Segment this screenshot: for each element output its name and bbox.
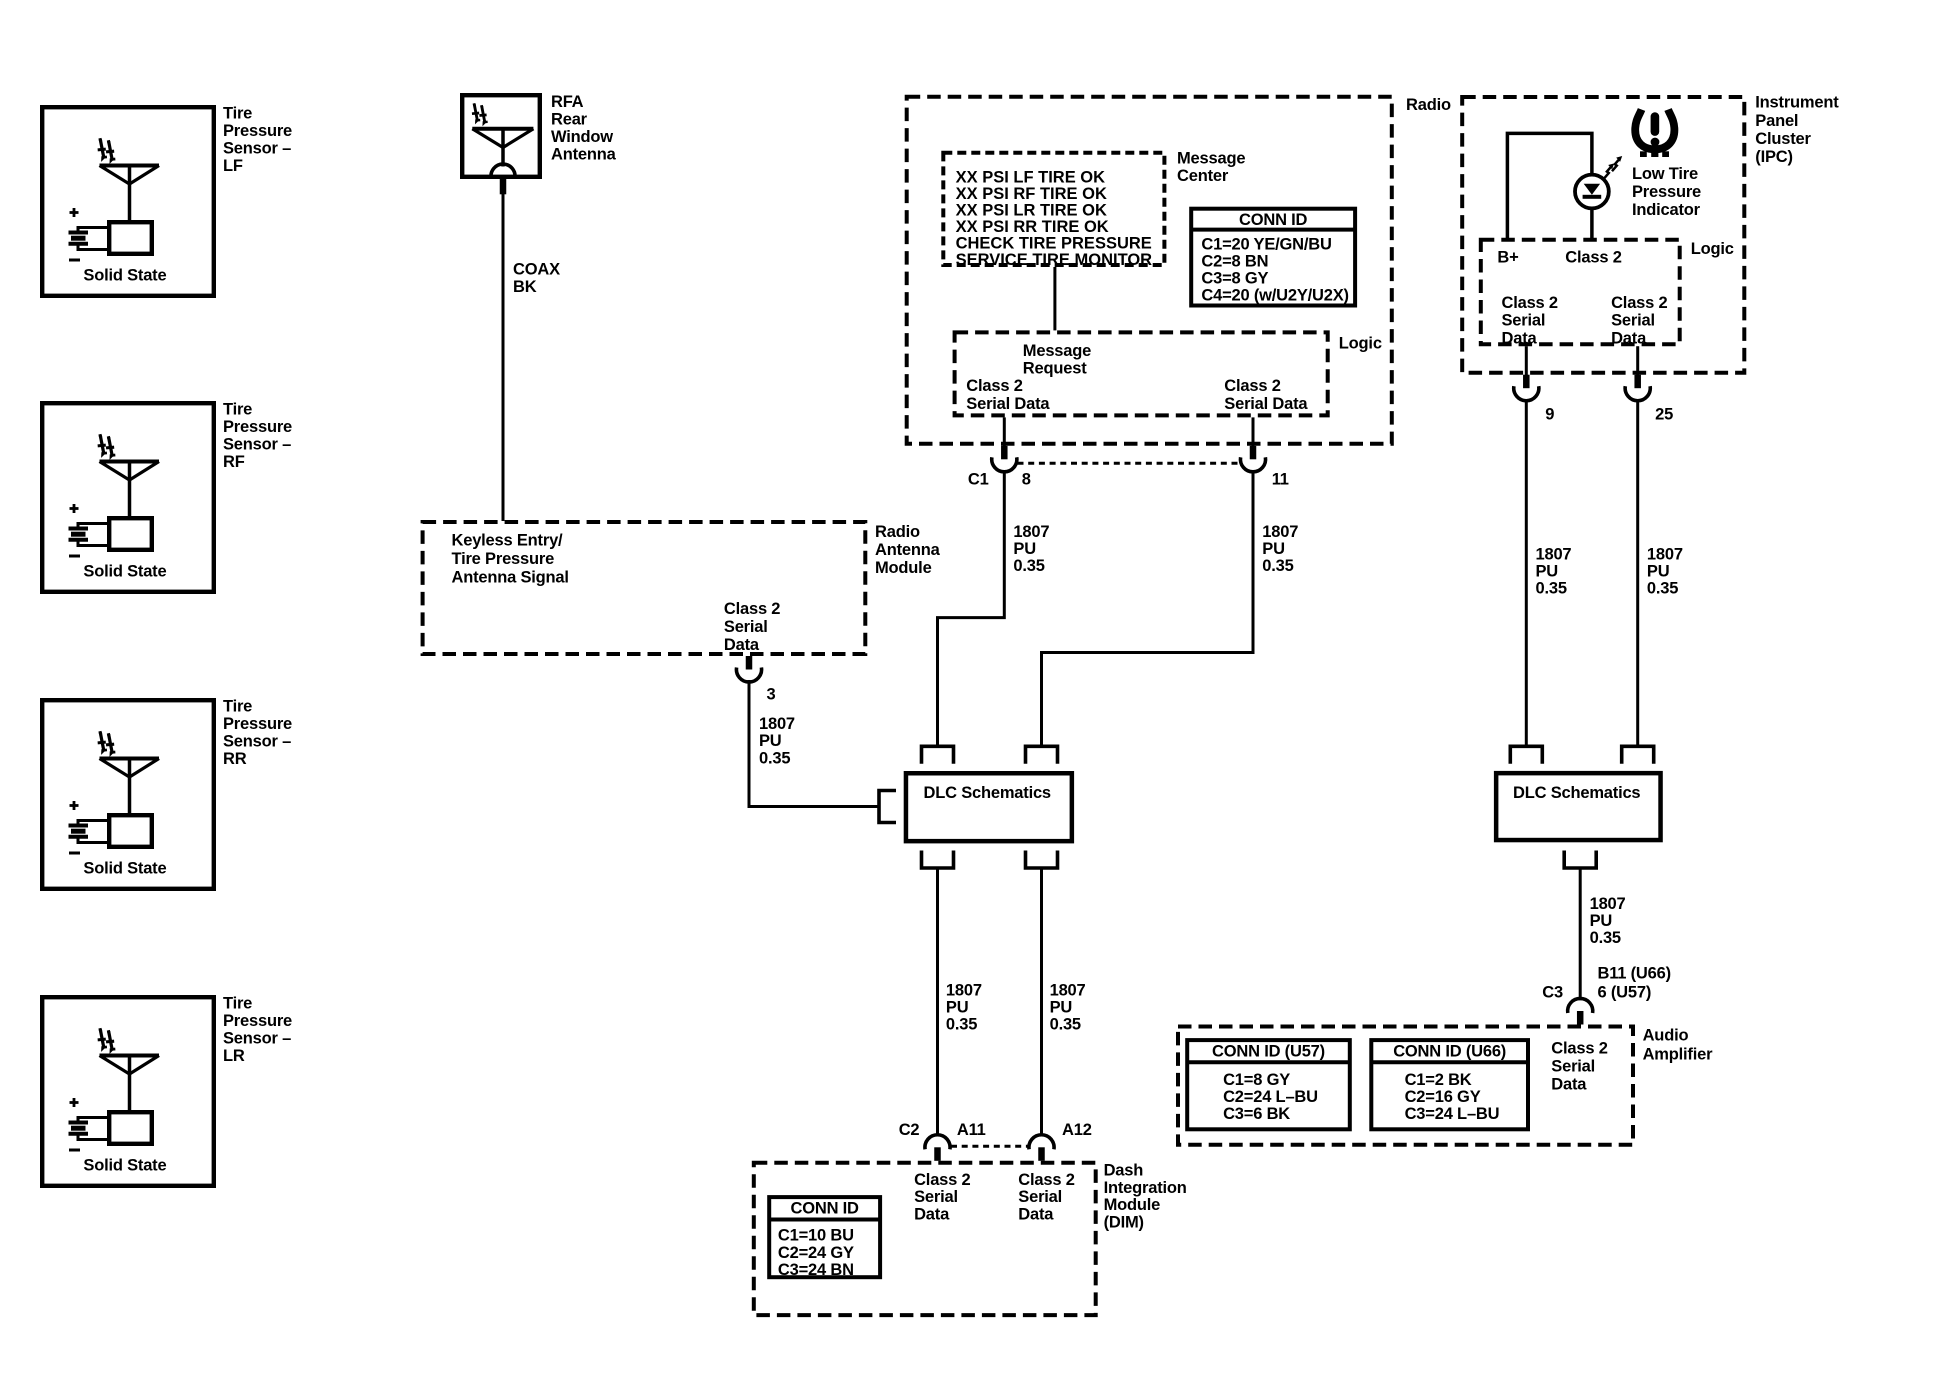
svg-text:CONN ID (U57): CONN ID (U57) — [1212, 1043, 1325, 1061]
svg-text:Radio: Radio — [875, 523, 920, 541]
display message center — [943, 150, 1245, 269]
svg-text:Integration: Integration — [1104, 1179, 1187, 1197]
svg-text:(IPC): (IPC) — [1755, 148, 1793, 166]
svg-text:(DIM): (DIM) — [1104, 1213, 1144, 1231]
svg-text:PU: PU — [946, 998, 969, 1016]
svg-text:RFA: RFA — [551, 93, 584, 111]
svg-text:C3=24 L–BU: C3=24 L–BU — [1405, 1105, 1500, 1123]
svg-text:0.35: 0.35 — [1536, 580, 1567, 598]
pin top-right of DLC — [1026, 746, 1058, 764]
svg-text:CONN ID (U66): CONN ID (U66) — [1393, 1043, 1506, 1061]
svg-text:DLC Schematics: DLC Schematics — [924, 784, 1051, 802]
connector C2 junction line — [951, 1145, 1030, 1148]
svg-text:Serial: Serial — [1551, 1058, 1595, 1076]
svg-text:Tire: Tire — [223, 995, 252, 1013]
pin left of DLC — [879, 791, 896, 823]
connector C3 — [1542, 984, 1592, 1025]
wire 1807 PU 0.35 (DLC to audio amplifier) — [1580, 870, 1625, 1001]
svg-text:Class 2: Class 2 — [1502, 294, 1558, 312]
module DLC schematics (left) — [906, 773, 1072, 841]
svg-text:Pressure: Pressure — [223, 715, 292, 733]
label dash integration module — [1104, 1162, 1187, 1232]
svg-text:1807: 1807 — [1262, 523, 1298, 541]
icon low tire pressure warning — [1635, 110, 1674, 158]
svg-text:Pressure: Pressure — [223, 418, 292, 436]
svg-text:Class 2: Class 2 — [1224, 377, 1280, 395]
svg-text:6 (U57): 6 (U57) — [1598, 984, 1652, 1002]
svg-text:1807: 1807 — [1050, 981, 1086, 999]
label low tire pressure indicator — [1632, 165, 1701, 219]
table CONN ID (DIM) — [769, 1197, 880, 1279]
svg-text:Message: Message — [1177, 150, 1245, 168]
svg-text:Tire: Tire — [223, 105, 252, 123]
svg-text:1807: 1807 — [1013, 523, 1049, 541]
svg-text:C1=2 BK: C1=2 BK — [1405, 1071, 1472, 1089]
connector pin 25 — [1625, 375, 1673, 424]
module dash integration module — [754, 1163, 1096, 1315]
svg-text:Sensor –: Sensor – — [223, 436, 291, 454]
connector C1 pin 8 — [968, 446, 1031, 489]
svg-text:Pressure: Pressure — [223, 1012, 292, 1030]
svg-text:Serial: Serial — [1611, 312, 1655, 330]
wire LED to logic — [1590, 208, 1594, 241]
pin top-left of DLC — [922, 746, 954, 764]
svg-text:C2=24 GY: C2=24 GY — [778, 1244, 854, 1262]
svg-text:SERVICE TIRE MONITOR: SERVICE TIRE MONITOR — [956, 251, 1153, 269]
svg-text:PU: PU — [1590, 912, 1613, 930]
svg-text:Logic: Logic — [1691, 240, 1734, 258]
svg-text:C2=24 L–BU: C2=24 L–BU — [1223, 1088, 1318, 1106]
svg-text:BK: BK — [513, 278, 537, 296]
tire pressure sensor RR — [42, 698, 292, 889]
module keyless entry / tire pressure antenna signal — [423, 522, 866, 654]
pin bottom-left of DLC — [922, 851, 954, 869]
module instrument panel cluster — [1462, 94, 1839, 373]
svg-text:A11: A11 — [957, 1121, 986, 1139]
svg-text:DLC Schematics: DLC Schematics — [1513, 784, 1640, 802]
wire 1807 PU 0.35 (radio 11 to DLC) — [1042, 470, 1299, 745]
svg-text:Cluster: Cluster — [1755, 130, 1811, 148]
svg-text:Antenna: Antenna — [875, 541, 941, 559]
svg-text:Serial Data: Serial Data — [966, 395, 1050, 413]
svg-text:CONN ID: CONN ID — [1239, 211, 1308, 229]
pin bottom-right of DLC — [1026, 851, 1058, 869]
svg-text:3: 3 — [767, 686, 776, 704]
svg-text:Pressure: Pressure — [1632, 183, 1701, 201]
svg-text:1807: 1807 — [1647, 546, 1683, 564]
svg-text:C2=8 BN: C2=8 BN — [1201, 253, 1268, 271]
pin bottom of right DLC — [1564, 851, 1596, 869]
svg-text:1807: 1807 — [946, 981, 982, 999]
wire logic to radio edge (pin 8) — [1003, 417, 1006, 446]
svg-text:1807: 1807 — [1590, 895, 1626, 913]
svg-text:C4=20 (w/U2Y/U2X): C4=20 (w/U2Y/U2X) — [1201, 287, 1348, 305]
svg-text:1807: 1807 — [1536, 546, 1572, 564]
wire 1807 PU 0.35 (IPC 25 to DLC) — [1638, 399, 1683, 745]
wire 1807 PU 0.35 (DLC to DIM A12) — [1042, 870, 1086, 1137]
wire 1807 PU 0.35 (radio 8 to DLC) — [938, 470, 1050, 745]
svg-text:Serial: Serial — [724, 618, 768, 636]
connector pin 11 — [1240, 446, 1288, 489]
svg-text:25: 25 — [1655, 406, 1673, 424]
svg-text:Antenna: Antenna — [551, 146, 617, 164]
svg-text:Audio: Audio — [1643, 1027, 1689, 1045]
svg-text:Class 2: Class 2 — [724, 600, 780, 618]
wire 1807 PU 0.35 (DLC to DIM A11) — [938, 870, 982, 1137]
svg-text:PU: PU — [1647, 563, 1670, 581]
svg-text:Sensor –: Sensor – — [223, 733, 291, 751]
svg-text:Class 2: Class 2 — [1565, 249, 1621, 267]
svg-text:Logic: Logic — [1339, 335, 1382, 353]
wire 1807 PU 0.35 (IPC 9 to DLC) — [1526, 399, 1571, 745]
svg-text:0.35: 0.35 — [1590, 929, 1621, 947]
svg-text:Tire Pressure: Tire Pressure — [452, 550, 555, 568]
connector C1 junction line — [1018, 462, 1241, 465]
svg-text:RR: RR — [223, 750, 247, 768]
svg-text:Keyless Entry/: Keyless Entry/ — [452, 532, 564, 550]
svg-text:Serial Data: Serial Data — [1224, 395, 1308, 413]
svg-text:PU: PU — [1050, 998, 1073, 1016]
svg-text:Amplifier: Amplifier — [1643, 1046, 1713, 1064]
svg-text:9: 9 — [1545, 406, 1554, 424]
wire logic to IPC edge (pin 25) — [1636, 346, 1639, 375]
pin top-left of right DLC — [1510, 746, 1542, 764]
module radio — [907, 96, 1451, 444]
svg-text:RF: RF — [223, 453, 245, 471]
tire pressure sensor RF — [42, 401, 292, 592]
svg-text:C3: C3 — [1542, 984, 1563, 1002]
svg-text:Message: Message — [1023, 342, 1091, 360]
svg-text:Instrument: Instrument — [1755, 94, 1839, 112]
svg-text:LF: LF — [223, 157, 243, 175]
pin labels B11 / 6 — [1598, 965, 1671, 1002]
table CONN ID (radio) — [1191, 209, 1355, 306]
svg-text:Request: Request — [1023, 360, 1087, 378]
svg-text:Data: Data — [1502, 329, 1538, 347]
svg-text:Radio: Radio — [1406, 96, 1451, 114]
svg-text:C1: C1 — [968, 471, 989, 489]
svg-text:0.35: 0.35 — [1050, 1015, 1081, 1033]
svg-text:8: 8 — [1022, 471, 1031, 489]
svg-text:C2: C2 — [899, 1121, 920, 1139]
svg-text:Tire: Tire — [223, 401, 252, 419]
svg-text:A12: A12 — [1062, 1121, 1092, 1139]
svg-text:Sensor –: Sensor – — [223, 140, 291, 158]
svg-text:Class 2: Class 2 — [1611, 294, 1667, 312]
table CONN ID (U57) — [1187, 1040, 1350, 1129]
svg-text:LR: LR — [223, 1047, 245, 1065]
svg-text:Window: Window — [551, 128, 613, 146]
svg-text:Antenna Signal: Antenna Signal — [452, 568, 569, 586]
svg-text:Data: Data — [1018, 1206, 1054, 1224]
wire logic to radio edge (pin 11) — [1252, 417, 1255, 446]
svg-text:C3=6 BK: C3=6 BK — [1223, 1105, 1290, 1123]
logic block (radio) — [955, 332, 1382, 415]
label radio antenna module — [875, 523, 941, 577]
svg-text:Serial: Serial — [914, 1188, 958, 1206]
svg-text:C1=20 YE/GN/BU: C1=20 YE/GN/BU — [1201, 236, 1331, 254]
svg-text:C3=8 GY: C3=8 GY — [1201, 270, 1268, 288]
logic block (IPC) — [1481, 240, 1734, 348]
tire pressure sensor LF — [42, 105, 292, 296]
wire B+ feed — [1507, 133, 1592, 240]
svg-text:Sensor –: Sensor – — [223, 1030, 291, 1048]
svg-text:XX PSI LR TIRE OK: XX PSI LR TIRE OK — [956, 201, 1107, 219]
table CONN ID (U66) — [1371, 1040, 1528, 1129]
svg-text:1807: 1807 — [759, 715, 795, 733]
LED low tire pressure indicator — [1575, 156, 1622, 208]
connector C2 pin A11 — [899, 1121, 986, 1161]
svg-text:Data: Data — [1551, 1076, 1587, 1094]
antenna RFA rear window — [462, 93, 616, 194]
svg-text:Panel: Panel — [1755, 112, 1798, 130]
svg-text:Dash: Dash — [1104, 1162, 1144, 1180]
svg-text:Data: Data — [724, 636, 760, 654]
svg-text:XX PSI RR TIRE OK: XX PSI RR TIRE OK — [956, 218, 1109, 236]
svg-text:Module: Module — [1104, 1196, 1161, 1214]
svg-text:CONN ID: CONN ID — [791, 1200, 860, 1218]
svg-text:Serial: Serial — [1502, 312, 1546, 330]
wire COAX BK — [503, 193, 560, 521]
svg-text:0.35: 0.35 — [946, 1015, 977, 1033]
svg-text:XX PSI RF TIRE OK: XX PSI RF TIRE OK — [956, 185, 1107, 203]
svg-text:C1=8 GY: C1=8 GY — [1223, 1071, 1290, 1089]
svg-text:C3=24 BN: C3=24 BN — [778, 1261, 854, 1279]
module audio amplifier — [1178, 1027, 1633, 1145]
svg-text:Module: Module — [875, 559, 932, 577]
module DLC schematics (right) — [1496, 773, 1660, 840]
svg-text:PU: PU — [1536, 563, 1559, 581]
svg-text:B+: B+ — [1497, 249, 1518, 267]
svg-text:B11 (U66): B11 (U66) — [1598, 965, 1671, 983]
svg-text:Data: Data — [1611, 329, 1647, 347]
svg-text:Indicator: Indicator — [1632, 201, 1701, 219]
svg-text:Tire: Tire — [223, 698, 252, 716]
svg-text:Serial: Serial — [1018, 1188, 1062, 1206]
svg-text:Center: Center — [1177, 167, 1229, 185]
svg-text:0.35: 0.35 — [1013, 557, 1044, 575]
tire pressure sensor LR — [42, 995, 292, 1186]
svg-text:PU: PU — [759, 732, 782, 750]
svg-text:Low Tire: Low Tire — [1632, 165, 1698, 183]
svg-text:PU: PU — [1262, 540, 1285, 558]
label audio amplifier — [1643, 1027, 1713, 1064]
svg-text:0.35: 0.35 — [1262, 557, 1293, 575]
svg-text:Class 2: Class 2 — [1551, 1039, 1607, 1057]
svg-text:C2=16 GY: C2=16 GY — [1405, 1088, 1481, 1106]
svg-text:CHECK TIRE PRESSURE: CHECK TIRE PRESSURE — [956, 234, 1152, 252]
svg-text:PU: PU — [1013, 540, 1036, 558]
connector pin 9 — [1514, 375, 1555, 424]
svg-text:Class 2: Class 2 — [1018, 1171, 1074, 1189]
svg-text:Class 2: Class 2 — [914, 1171, 970, 1189]
connector pin 3 — [736, 656, 775, 704]
svg-text:Rear: Rear — [551, 111, 588, 129]
svg-text:XX PSI LF TIRE OK: XX PSI LF TIRE OK — [956, 168, 1106, 186]
wire 1807 PU 0.35 (keyless to DLC) — [749, 680, 879, 807]
svg-text:Data: Data — [914, 1206, 950, 1224]
svg-text:0.35: 0.35 — [1647, 580, 1678, 598]
svg-text:COAX: COAX — [513, 261, 560, 279]
connector pin A12 — [1029, 1121, 1092, 1161]
svg-text:Pressure: Pressure — [223, 122, 292, 140]
svg-text:11: 11 — [1272, 471, 1289, 489]
pin top-right of right DLC — [1622, 746, 1654, 764]
svg-text:C1=10 BU: C1=10 BU — [778, 1227, 854, 1245]
wire message center to logic — [1053, 267, 1056, 330]
svg-text:Class 2: Class 2 — [966, 377, 1022, 395]
svg-text:0.35: 0.35 — [759, 750, 790, 768]
wire logic to IPC edge (pin 9) — [1525, 346, 1528, 375]
